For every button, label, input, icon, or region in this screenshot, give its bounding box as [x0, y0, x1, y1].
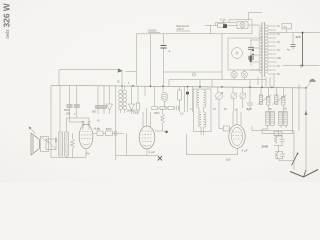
svg-text:4V: 4V	[277, 49, 280, 52]
bottom wire left	[51, 149, 86, 158]
speaker arrow	[30, 128, 36, 134]
scale lamp 2	[241, 71, 247, 77]
wire v x184.5	[184, 87, 186, 113]
svg-text:4V: 4V	[97, 120, 100, 123]
wire v x133	[135, 34, 137, 86]
variable capacitor CV1	[217, 87, 219, 92]
wire mid rail y72	[164, 71, 223, 73]
svg-text:6V: 6V	[277, 73, 280, 76]
wire v x210.5	[210, 26, 212, 34]
svg-text:500: 500	[92, 111, 97, 114]
resistor R3 zigzag	[71, 133, 75, 158]
output transformer windings	[59, 134, 69, 154]
node dot	[165, 131, 168, 134]
svg-text:100: 100	[226, 158, 231, 162]
svg-text:20000: 20000	[148, 29, 157, 33]
HT rail vertical	[302, 33, 304, 66]
node n on rail	[192, 73, 195, 76]
wire v x306 down	[305, 88, 307, 170]
trimmer arrow 2	[273, 95, 287, 105]
capacitor row c1	[157, 106, 179, 111]
tap labels	[277, 25, 282, 76]
svg-text:4V: 4V	[277, 33, 280, 36]
svg-text:2µF: 2µF	[247, 107, 252, 111]
bottom wire B	[186, 134, 237, 155]
wire v2 bottom	[146, 149, 148, 156]
capacitor C68	[292, 33, 294, 44]
wire v x60	[59, 85, 61, 132]
wire v x299	[298, 85, 300, 131]
resistor R4 zigzag	[155, 108, 165, 131]
variable capacitor CV2	[232, 87, 234, 93]
grid stopper box	[223, 126, 229, 131]
wire v x122 coil feed	[121, 71, 123, 93]
capacitor C62	[97, 86, 99, 114]
wire v x192.5	[192, 87, 194, 112]
tube V1 AL4	[79, 124, 93, 148]
wire v x222	[221, 34, 223, 72]
oscillator tube top view	[232, 48, 243, 59]
trimmer arrow 1	[258, 95, 272, 105]
transformer left taps	[250, 25, 259, 70]
svg-text:4V: 4V	[277, 65, 280, 68]
dark labels	[269, 108, 287, 111]
wire v x145	[144, 86, 146, 96]
node blob	[186, 92, 189, 95]
title Seibt 326 W	[2, 3, 12, 39]
components row after V1	[93, 132, 97, 134]
svg-text:220: 220	[277, 57, 282, 60]
capacitor C65	[247, 87, 253, 108]
HT arrow up	[305, 110, 308, 116]
wire v x115.8	[115, 86, 117, 161]
wire rail y79.5	[169, 79, 266, 81]
rectifier Gl box	[282, 24, 292, 29]
wire v x154.5	[154, 86, 156, 106]
transformer primary winding	[259, 25, 262, 73]
wire top feeds	[229, 20, 252, 34]
shield box oscillator	[228, 38, 262, 70]
capacitor Ca	[163, 34, 165, 45]
capacitor C60	[69, 86, 71, 123]
coupling box	[274, 131, 282, 135]
tuned bar L7	[275, 87, 277, 95]
IF winding 2b	[204, 112, 207, 127]
resistor row r3	[168, 106, 174, 110]
main earth bus	[51, 85, 306, 88]
RC network 2	[275, 152, 283, 159]
tube V3	[229, 125, 245, 149]
svg-text:4 µF: 4 µF	[242, 148, 248, 152]
wire top HT bus	[136, 33, 252, 35]
RC network 1	[274, 131, 283, 146]
bottom wire A	[116, 155, 158, 157]
bus junction dots	[121, 85, 307, 89]
wire v x59	[58, 70, 60, 85]
switch area wire	[252, 126, 294, 170]
winding connections	[262, 105, 286, 133]
antenna	[306, 82, 311, 88]
trimmer T2	[129, 86, 135, 114]
capacitor pair in box	[250, 40, 252, 47]
mains lead V	[290, 170, 318, 178]
dial lamp La	[237, 22, 248, 29]
electrolytic block	[250, 56, 252, 63]
capacitor C63	[103, 86, 105, 114]
wire y65 to edge	[283, 65, 320, 67]
svg-text:1000: 1000	[133, 112, 139, 115]
wire v x150.5	[150, 34, 152, 86]
IF transformer shield	[194, 89, 212, 132]
tuning arrow line	[59, 69, 118, 71]
wire bus left drop	[50, 85, 52, 157]
label netz	[262, 145, 269, 149]
resistor row r1	[152, 106, 157, 110]
svg-text:4 µF: 4 µF	[149, 150, 155, 154]
label 220	[296, 35, 301, 39]
tuned bar L5	[260, 87, 262, 95]
svg-text:Dr: Dr	[98, 127, 101, 131]
IF winding 1b	[204, 90, 207, 108]
transformer Tr core	[262, 22, 265, 77]
IF winding 2a	[198, 112, 201, 127]
tuned bar L8	[282, 88, 284, 97]
transformer secondary winding	[265, 25, 268, 73]
resistor R2	[179, 87, 181, 91]
wire v x293	[292, 88, 294, 134]
svg-text:4V: 4V	[86, 152, 90, 156]
variable capacitor CV3	[242, 87, 244, 93]
capacitor 0,1 label	[221, 17, 227, 21]
output transformer wires	[67, 118, 77, 132]
mains switch contacts	[252, 50, 254, 52]
svg-text:Seibt: Seibt	[5, 29, 10, 39]
wire HT row y32.6	[269, 32, 320, 34]
bottom wire y133	[262, 132, 294, 134]
switch arm	[292, 154, 298, 166]
svg-text:220: 220	[296, 35, 301, 39]
wire tube1 feeds	[70, 120, 84, 123]
trimmer T1	[107, 86, 113, 114]
resistor row r2	[160, 106, 166, 110]
svg-text:5000: 5000	[106, 127, 112, 131]
svg-text:2V: 2V	[277, 41, 280, 44]
IF winding 1a	[196, 90, 199, 108]
tube V2	[139, 126, 155, 149]
svg-text:4V: 4V	[277, 25, 280, 28]
wires below transformer	[258, 74, 274, 87]
speaker magnet	[41, 137, 49, 152]
scale lamp 1	[231, 71, 237, 77]
wire feed row y25.5	[205, 25, 218, 27]
svg-text:326 W: 326 W	[2, 3, 12, 27]
label 4uF tube2	[149, 150, 155, 154]
IF2 winding pair A	[266, 111, 270, 125]
svg-text:2000: 2000	[262, 145, 269, 149]
transformer right taps	[268, 26, 276, 74]
IF2 winding pair B	[279, 111, 283, 125]
svg-text:300: 300	[66, 113, 71, 116]
resistor R1	[137, 86, 139, 103]
label Netzanschluss	[176, 24, 190, 31]
label 20000	[148, 29, 157, 33]
coil L2	[123, 90, 127, 94]
capacitor C61	[76, 86, 78, 119]
coil L3	[162, 86, 164, 92]
loudspeaker cone	[31, 133, 40, 155]
wire v x126.4	[125, 133, 127, 155]
tuned bar L6	[267, 87, 269, 96]
resistor R top	[218, 24, 226, 28]
svg-text:5000: 5000	[154, 112, 160, 115]
svg-text:Gl: Gl	[284, 25, 287, 29]
cross mark X	[158, 156, 162, 160]
svg-text:220 V: 220 V	[177, 27, 184, 31]
coil L1	[119, 90, 123, 94]
misc tiny labels	[64, 81, 237, 123]
